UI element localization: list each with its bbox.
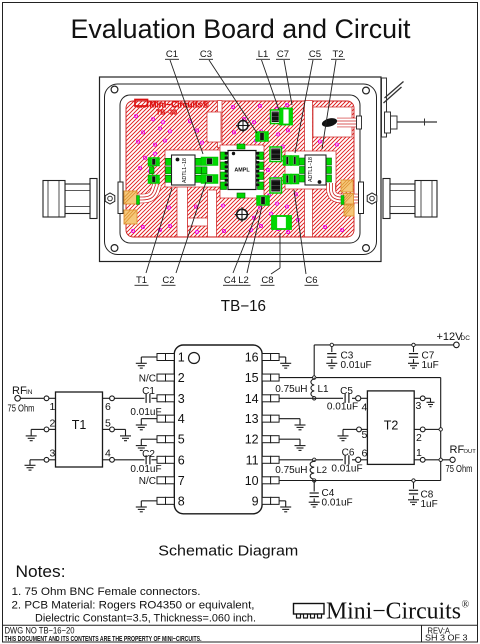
svg-text:DC: DC <box>461 335 471 342</box>
svg-text:4: 4 <box>362 402 368 414</box>
svg-text:RF: RF <box>12 385 27 397</box>
svg-text:10: 10 <box>245 474 259 488</box>
svg-text:C2: C2 <box>142 449 155 460</box>
svg-text:L1: L1 <box>318 384 330 395</box>
svg-text:4: 4 <box>178 412 185 426</box>
svg-text:1: 1 <box>416 447 422 459</box>
svg-text:Evaluation Board and Circuit: Evaluation Board and Circuit <box>71 14 411 44</box>
svg-text:C6: C6 <box>305 275 317 286</box>
svg-text:C5: C5 <box>309 49 321 60</box>
svg-text:C3: C3 <box>200 49 212 60</box>
svg-text:2: 2 <box>50 418 56 430</box>
svg-text:AMPL: AMPL <box>234 168 250 174</box>
svg-text:11: 11 <box>246 453 259 467</box>
svg-text:L1: L1 <box>258 49 269 60</box>
svg-text:C7: C7 <box>277 49 289 60</box>
svg-text:0.75uH: 0.75uH <box>275 465 307 476</box>
svg-text:0.75uH: 0.75uH <box>275 384 307 395</box>
svg-text:1uF: 1uF <box>421 499 438 510</box>
svg-text:0.01uF: 0.01uF <box>327 402 358 413</box>
svg-text:C2: C2 <box>162 275 174 286</box>
svg-text:ADTL1−18: ADTL1−18 <box>308 157 314 182</box>
svg-text:TB−16: TB−16 <box>221 298 266 315</box>
svg-text:T2: T2 <box>384 418 399 432</box>
svg-text:Notes:: Notes: <box>16 563 66 581</box>
svg-text:6: 6 <box>105 401 111 413</box>
svg-text:0.01uF: 0.01uF <box>331 463 362 474</box>
svg-text:L2: L2 <box>238 275 249 286</box>
svg-text:16: 16 <box>245 351 259 365</box>
svg-text:T1: T1 <box>72 418 87 432</box>
svg-text:75 Ohm: 75 Ohm <box>8 404 35 415</box>
svg-text:®: ® <box>462 600 470 611</box>
svg-text:Dielectric Constant=3.5, Thick: Dielectric Constant=3.5, Thickness=.060 … <box>35 613 256 625</box>
svg-text:14: 14 <box>245 392 259 406</box>
svg-text:1uF: 1uF <box>422 360 439 371</box>
svg-text:C1: C1 <box>166 49 178 60</box>
svg-text:L2: L2 <box>317 465 328 476</box>
svg-text:1. 75 Ohm BNC Female connector: 1. 75 Ohm BNC Female connectors. <box>12 586 201 598</box>
svg-text:1: 1 <box>50 401 56 413</box>
svg-text:8: 8 <box>178 494 185 508</box>
svg-text:2. PCB Material: Rogers RO4350: 2. PCB Material: Rogers RO4350 or equiva… <box>12 600 255 612</box>
svg-text:6: 6 <box>362 448 368 460</box>
svg-text:2: 2 <box>178 371 185 385</box>
svg-text:OUT: OUT <box>464 449 477 455</box>
svg-text:0.01uF: 0.01uF <box>322 498 353 509</box>
svg-text:15: 15 <box>245 371 259 385</box>
svg-text:1: 1 <box>178 351 185 365</box>
svg-text:ADTL1−18: ADTL1−18 <box>182 158 188 183</box>
svg-text:75 Ohm: 75 Ohm <box>446 464 473 475</box>
svg-text:9: 9 <box>252 494 259 508</box>
svg-text:5: 5 <box>105 418 111 430</box>
svg-text:3: 3 <box>416 400 422 412</box>
svg-text:T1: T1 <box>136 275 147 286</box>
svg-text:5: 5 <box>178 433 185 447</box>
svg-text:SH 3 OF 3: SH 3 OF 3 <box>425 633 468 643</box>
svg-text:3: 3 <box>178 392 185 406</box>
svg-text:C6: C6 <box>342 448 355 459</box>
svg-text:THIS DOCUMENT AND ITS CONTENTS: THIS DOCUMENT AND ITS CONTENTS ARE THE P… <box>5 634 202 643</box>
svg-text:+12V: +12V <box>437 331 464 343</box>
svg-text:N/C: N/C <box>139 476 156 487</box>
svg-text:Schematic Diagram: Schematic Diagram <box>158 543 298 559</box>
svg-text:3: 3 <box>50 448 56 460</box>
svg-text:IN: IN <box>26 389 33 396</box>
svg-text:Mini−Circuits: Mini−Circuits <box>326 599 461 625</box>
svg-text:0.01uF: 0.01uF <box>341 360 372 371</box>
svg-text:13: 13 <box>245 412 259 426</box>
svg-text:N/C: N/C <box>139 374 156 385</box>
svg-text:5: 5 <box>362 429 368 441</box>
svg-text:0.01uF: 0.01uF <box>130 464 161 475</box>
svg-text:7: 7 <box>178 474 185 488</box>
svg-text:4: 4 <box>105 448 111 460</box>
svg-text:C4: C4 <box>224 275 236 286</box>
svg-text:TB−30: TB−30 <box>156 108 177 117</box>
svg-text:C1: C1 <box>142 386 155 397</box>
svg-text:T2: T2 <box>332 49 343 60</box>
svg-text:RF: RF <box>450 444 465 456</box>
svg-text:C8: C8 <box>261 275 273 286</box>
svg-text:C5: C5 <box>340 386 353 397</box>
svg-text:2: 2 <box>416 432 422 444</box>
svg-text:6: 6 <box>178 453 185 467</box>
svg-text:12: 12 <box>245 433 259 447</box>
